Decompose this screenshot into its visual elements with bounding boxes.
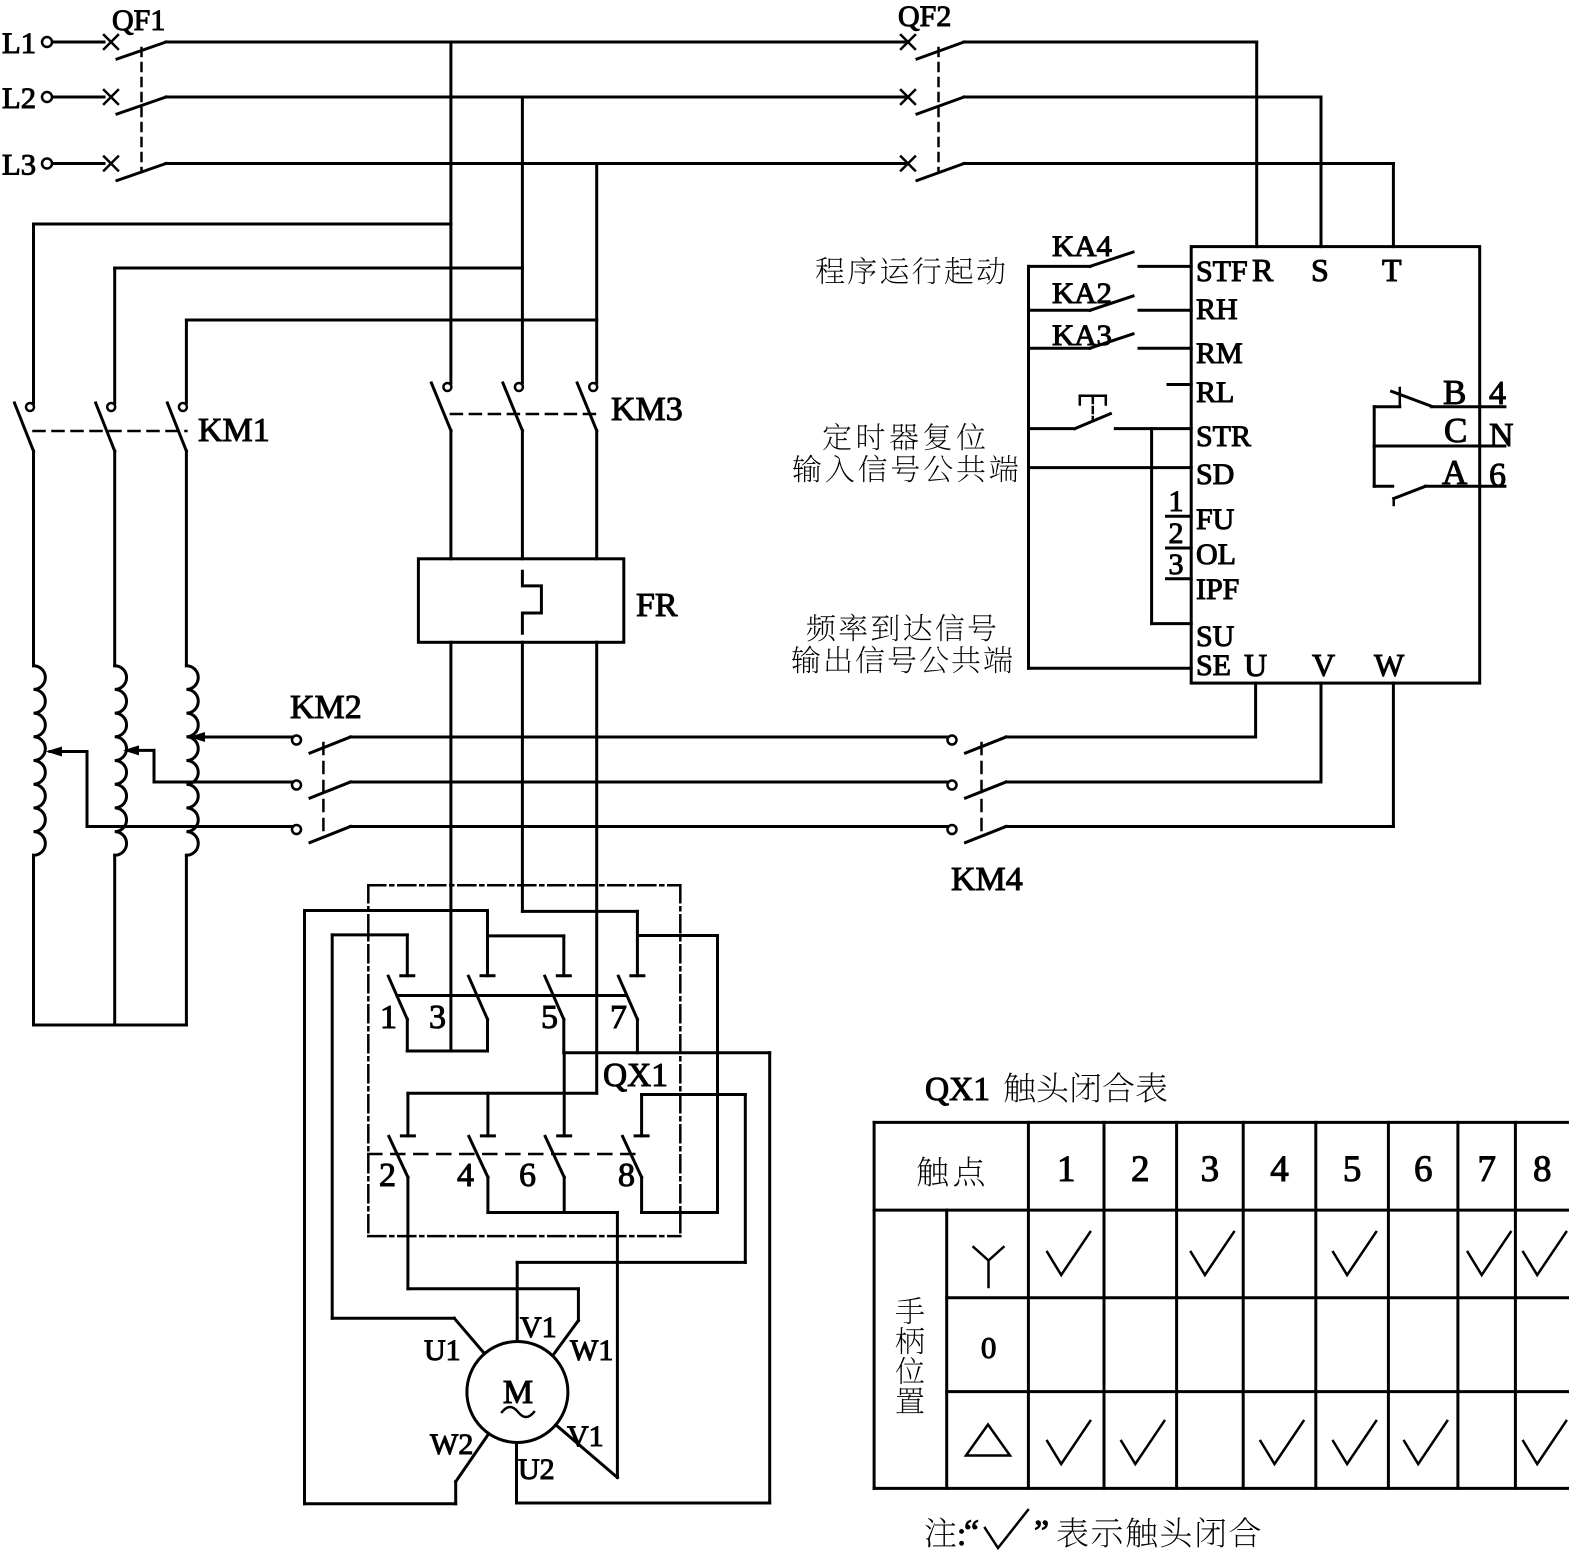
svg-text:R: R (1252, 252, 1274, 288)
wire join contacts 5 7 bottoms (564, 1051, 770, 1054)
wire L2 to S terminal (964, 96, 1321, 99)
svg-text:4: 4 (457, 1157, 474, 1194)
wire contact3 top to bypass (305, 909, 488, 912)
table checks star row (1047, 1232, 1090, 1275)
svg-text:W2: W2 (430, 1428, 473, 1461)
table star symbol (974, 1247, 1004, 1287)
svg-text:L2: L2 (2, 82, 36, 115)
svg-text:V: V (1312, 647, 1335, 683)
cam contact 1 (406, 935, 409, 976)
wire W2 bottom run (305, 1502, 456, 1505)
contactor KM1 pole 1 (26, 403, 34, 411)
table column lines (873, 1122, 876, 1488)
table top border (874, 1121, 1569, 1124)
wire phase3 FR down (595, 642, 598, 1093)
svg-text:SD: SD (1196, 458, 1234, 491)
svg-text:1: 1 (380, 999, 397, 1036)
svg-text:QX1: QX1 (603, 1057, 668, 1094)
thermal relay FR box (418, 559, 623, 643)
wire U2 lead (515, 1443, 518, 1504)
timer contact STR (1029, 427, 1075, 430)
svg-text:FU: FU (1196, 503, 1235, 536)
cam contact 4 (486, 1093, 489, 1136)
svg-text:7: 7 (1477, 1149, 1496, 1190)
wire W1 lead (553, 1321, 578, 1355)
svg-text:L3: L3 (2, 149, 36, 182)
wire STR to SU link (1150, 429, 1153, 624)
contactor KM2 pole 2 (292, 781, 301, 790)
wire contact1 top to U1 drop (332, 933, 407, 936)
cam switch QX1 frame left (367, 885, 370, 1236)
svg-text:6: 6 (1489, 457, 1506, 494)
svg-text:C: C (1444, 411, 1467, 450)
timer contact actuator (1080, 394, 1106, 397)
wire contact8 bottom (642, 1211, 718, 1214)
wire contact8 top bracket (640, 1095, 643, 1136)
svg-text:KA3: KA3 (1052, 319, 1112, 352)
breaker QF1 pole L3 cross (104, 157, 118, 171)
svg-text:5: 5 (541, 999, 558, 1036)
wire contacts 4 6 to motor V2 (616, 1213, 619, 1478)
svg-text:KM2: KM2 (290, 689, 362, 726)
wire L1 QF1 to QF2 (166, 41, 905, 44)
relay contact KA4 (1029, 265, 1091, 268)
svg-text:5: 5 (1343, 1149, 1362, 1190)
svg-text:U1: U1 (424, 1334, 461, 1367)
svg-text:3: 3 (1169, 548, 1184, 581)
cam switch bottom row linkage (368, 1153, 640, 1156)
table handle position label (896, 1297, 924, 1324)
wire left bypass to W2 (303, 911, 306, 1504)
cam contact 5 (562, 936, 565, 976)
wire contact8 riser (716, 936, 719, 1213)
wire L1 dropper (449, 42, 452, 383)
svg-text:KM4: KM4 (951, 861, 1023, 898)
breaker QF2 pole L2 cross (901, 90, 915, 104)
cam contact 8 (635, 1134, 648, 1137)
contactor KM1 pole 3 (179, 403, 187, 411)
svg-text:3: 3 (1201, 1149, 1220, 1190)
terminal IPF stub pin 3 (1167, 577, 1192, 580)
breaker QF2 pole L1 blade (917, 42, 964, 59)
wire phase1 FR to QX1 (449, 642, 452, 1051)
contactor KM4 linkage (980, 743, 983, 838)
cam contact 3 (486, 911, 489, 976)
breaker QF2 linkage (937, 48, 940, 171)
svg-text:1: 1 (1057, 1149, 1076, 1190)
relay contact KA2 (1029, 309, 1091, 312)
svg-text:1: 1 (1169, 485, 1184, 518)
table header bottom border (874, 1209, 1569, 1212)
contactor KM2 linkage (322, 743, 325, 838)
svg-text:KA2: KA2 (1052, 277, 1112, 310)
thermal relay FR heater element (522, 571, 541, 633)
svg-text:RL: RL (1196, 376, 1234, 409)
svg-text:STF: STF (1196, 255, 1248, 288)
cam contact 7 (636, 911, 639, 975)
wire U2 to contacts 5 7 (768, 1053, 771, 1503)
svg-text:IPF: IPF (1196, 573, 1239, 606)
cam switch top row bridge line (397, 994, 625, 997)
svg-text:M: M (503, 1374, 533, 1411)
table row separator 1 (947, 1296, 1569, 1299)
table delta symbol (966, 1425, 1010, 1456)
svg-text:6: 6 (1414, 1149, 1433, 1190)
wire star point (34, 1024, 187, 1027)
wire U2 bottom run (517, 1502, 770, 1505)
wire L2 dropper (521, 97, 524, 383)
inverter W vertical (1392, 683, 1395, 826)
svg-text:QF2: QF2 (898, 0, 951, 33)
contactor KM1 linkage (34, 430, 187, 433)
svg-text:KA4: KA4 (1052, 230, 1112, 263)
breaker QF2 pole L1 cross (901, 35, 915, 49)
svg-text:U: U (1244, 647, 1267, 683)
wire join contacts 4 6 bottoms (488, 1211, 618, 1214)
svg-text:KM3: KM3 (611, 391, 683, 428)
svg-text:2: 2 (379, 1157, 396, 1194)
contactor KM2 pole 1 (292, 736, 301, 745)
breaker QF2 pole L3 blade (917, 164, 964, 181)
svg-text:W: W (1374, 647, 1405, 683)
inverter U vertical (1254, 683, 1257, 737)
wire phase3 to contacts 2 4 tops (408, 1092, 597, 1095)
svg-text:N: N (1489, 417, 1514, 454)
contactor KM3 linkage (451, 413, 597, 416)
tap arrow coil T2 (127, 749, 154, 752)
cam switch QX1 frame bottom (368, 1235, 680, 1238)
table checks delta row (1047, 1421, 1090, 1464)
wire L3 to QF1 (53, 162, 105, 165)
autotransformer coil T3 (186, 666, 198, 856)
svg-text:RM: RM (1196, 337, 1243, 370)
tap arrow coil T1 (50, 750, 87, 753)
wire join contacts 1 3 bottoms (407, 1050, 487, 1053)
contactor KM4 pole 3 (948, 825, 957, 834)
svg-text:7: 7 (610, 999, 627, 1036)
wire control bus (1027, 266, 1030, 668)
terminal L3 (42, 159, 52, 169)
terminal FU stub pin 1 (1167, 515, 1192, 518)
svg-text:FR: FR (636, 587, 678, 624)
breaker QF1 pole L1 blade (117, 42, 166, 59)
contactor KM3 pole 3 (589, 383, 597, 391)
wire L2 QF1 to QF2 (166, 96, 905, 99)
wire W2 lead (456, 1434, 489, 1482)
svg-text:3: 3 (429, 999, 446, 1036)
inverter U1 box (1191, 247, 1480, 683)
svg-text:4: 4 (1489, 375, 1506, 412)
relay contact common bracket (1373, 407, 1376, 487)
svg-text:B: B (1443, 373, 1466, 412)
wire branch L2 left (115, 267, 523, 270)
wire L3 QF1 to QF2 (166, 162, 905, 165)
breaker QF1 pole L3 blade (117, 164, 166, 181)
svg-text:2: 2 (1169, 517, 1184, 550)
relay contact A (1374, 485, 1393, 488)
wire U1 drop (331, 935, 334, 1318)
wire SD common (1029, 466, 1192, 469)
relay contact KA3 (1029, 347, 1091, 350)
svg-text:QF1: QF1 (112, 4, 165, 37)
relay contact B (1374, 405, 1400, 408)
table handle column line (945, 1210, 948, 1488)
wire L3 dropper (595, 164, 598, 384)
breaker QF1 linkage (140, 48, 143, 171)
wire L1 to R terminal (964, 41, 1257, 44)
contactor KM4 pole 2 (948, 781, 957, 790)
wire L1 to QF1 (53, 41, 105, 44)
wire contact7 to contact8 riser (639, 934, 718, 937)
terminal L1 (42, 37, 52, 47)
motor M circle (467, 1342, 568, 1443)
contactor KM1 pole 2 (107, 403, 115, 411)
autotransformer coil T1 (34, 666, 46, 856)
svg-text:V1: V1 (520, 1311, 557, 1344)
label input signal common (793, 455, 821, 483)
svg-text:”: ” (1034, 1514, 1049, 1551)
label output signal common (792, 646, 820, 674)
contactor KM3 pole 1 (443, 383, 451, 391)
breaker QF2 pole L2 blade (917, 97, 964, 114)
wire branch L3 left (186, 319, 596, 322)
tap arrow coil T3 (193, 736, 292, 739)
svg-text:A: A (1442, 453, 1468, 492)
inverter V vertical (1320, 683, 1323, 782)
wire contact2 bottom to W1 (408, 1287, 579, 1290)
svg-text:“: “ (964, 1514, 979, 1551)
autotransformer coil T2 (115, 666, 127, 856)
cam contact 6 (563, 1053, 566, 1136)
breaker QF2 pole L3 cross (901, 157, 915, 171)
svg-text:8: 8 (1533, 1149, 1552, 1190)
svg-text:RH: RH (1196, 293, 1238, 326)
breaker QF1 pole L2 blade (117, 97, 166, 114)
contactor KM3 pole 2 (515, 383, 523, 391)
cam switch QX1 frame right (679, 885, 682, 1236)
svg-text:U2: U2 (518, 1453, 555, 1486)
terminal RL stub (1168, 383, 1191, 386)
svg-text:4: 4 (1270, 1149, 1289, 1190)
wire L3 to T terminal (964, 162, 1393, 165)
svg-text:0: 0 (981, 1330, 997, 1365)
svg-text:8: 8 (618, 1157, 635, 1194)
cam switch QX1 frame top (368, 884, 680, 887)
wire to motor V1 (517, 1261, 745, 1264)
wire phase2 to contact7 top (522, 910, 637, 913)
label timer reset (823, 423, 851, 450)
wire phase2 FR down (521, 642, 524, 911)
svg-text:SE: SE (1196, 649, 1231, 682)
svg-text:STR: STR (1196, 420, 1251, 453)
svg-text:KM1: KM1 (198, 412, 270, 449)
svg-text:QX1: QX1 (925, 1071, 990, 1108)
relay contact C line (1374, 445, 1505, 448)
svg-text:L1: L1 (2, 27, 36, 60)
wire SE common (1029, 667, 1192, 670)
cam contact 2 (406, 1093, 409, 1136)
wire motor V1 drop (516, 1262, 519, 1341)
svg-text:W1: W1 (570, 1334, 613, 1367)
table header contact label (917, 1156, 947, 1186)
svg-text:6: 6 (519, 1157, 536, 1194)
svg-text:S: S (1311, 252, 1329, 288)
wire L2 to QF1 (53, 96, 105, 99)
terminal L2 (42, 92, 52, 102)
wire branch L1 left (34, 223, 451, 226)
table bottom border (874, 1487, 1569, 1490)
wire V2 lead (556, 1425, 618, 1478)
wire U1 lead (332, 1317, 454, 1320)
contactor KM2 pole 3 (292, 825, 301, 834)
contactor KM4 pole 1 (948, 736, 957, 745)
terminal OL stub pin 2 (1167, 547, 1192, 550)
label frequency reach signal (807, 614, 835, 641)
svg-text:OL: OL (1196, 538, 1236, 571)
svg-text:2: 2 (1131, 1149, 1150, 1190)
svg-text:V1: V1 (567, 1420, 604, 1453)
breaker QF1 pole L1 cross (104, 35, 118, 49)
breaker QF1 pole L2 cross (104, 90, 118, 104)
svg-text:T: T (1382, 252, 1402, 288)
table row separator 2 (947, 1390, 1569, 1393)
table note (925, 1518, 955, 1548)
wire contact3 to contact5 top (488, 934, 564, 937)
label program run start (816, 257, 844, 284)
